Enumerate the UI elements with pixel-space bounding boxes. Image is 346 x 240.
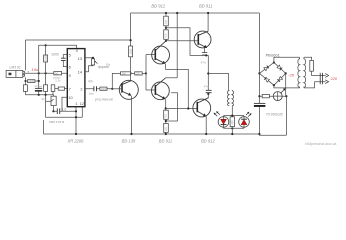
wire fuse line [259, 95, 286, 97]
svg-text:~20: ~20 [288, 73, 295, 77]
wire Q4 collector to rail [207, 13, 209, 31]
svg-text:220: 220 [136, 72, 141, 75]
node LED block top [231, 115, 233, 117]
node LED block bottom [231, 127, 233, 129]
node Q2 emitter to Q5 base [187, 107, 189, 109]
wire vertical x45.6 [46, 45, 83, 117]
svg-text:XR 2206: XR 2206 [67, 139, 85, 144]
transistor Q5 BD912 bottom right [193, 98, 211, 117]
wire pin13 to trimmer [85, 57, 93, 59]
wire pin10 branch [62, 97, 67, 111]
diode bridge top-right [277, 65, 282, 70]
node rail chain bottom [165, 133, 167, 135]
wire Q5 emitter to rail [205, 117, 207, 135]
capacitor electrolytic 470mk plates [35, 88, 42, 90]
wire pin2 output [85, 88, 112, 90]
svg-text:1мк: 1мк [89, 92, 95, 96]
top supply rail [131, 12, 260, 14]
svg-text:47н: 47н [204, 85, 209, 89]
svg-text:47к: 47к [88, 79, 94, 83]
node bridge top vertex [273, 61, 275, 63]
svg-text:0,5: 0,5 [165, 127, 168, 131]
svg-text:1000: 1000 [101, 88, 107, 91]
svg-text:BD 911: BD 911 [199, 3, 212, 8]
resistor horizontal 2200 [28, 80, 35, 83]
wire LED block to rail [231, 128, 233, 134]
capacitor 47n plates lower [206, 90, 212, 92]
resistor output series [100, 87, 107, 90]
node pot bottom [52, 110, 54, 112]
svg-text:2,2к: 2,2к [55, 79, 61, 83]
node pin4-loop junction [45, 44, 47, 46]
node rail x177.2 [176, 12, 178, 14]
node bridge left vertex [258, 72, 260, 74]
node input-R2 junction [45, 72, 47, 74]
node PSU rail bottom [258, 133, 260, 135]
node rail Q1 emitter [130, 133, 132, 135]
svg-text:2: 2 [27, 71, 29, 75]
svg-text:912: 912 [42, 97, 47, 101]
value marks inside resistors [28, 20, 234, 131]
node cap bottom [38, 94, 40, 96]
transistor Q4 BD911 top right [194, 31, 211, 48]
svg-text:14: 14 [78, 70, 82, 74]
svg-text:10к: 10к [31, 67, 39, 72]
arrow plug lower [325, 80, 328, 84]
resistor chain bottom R upper [164, 110, 169, 119]
capacitor 1.0 bars [57, 108, 59, 114]
svg-text:47н: 47н [201, 60, 206, 64]
LED D2 right red [239, 116, 250, 129]
capacitor C timing pins 5-6 [61, 55, 67, 67]
trimmer RP forma [91, 59, 97, 65]
svg-text:2к2: 2к2 [55, 72, 59, 75]
wire pin7 stubs [55, 88, 68, 90]
node pin2 chain to base [111, 88, 113, 90]
wire Q3 base [146, 89, 155, 91]
op-amp U1 XR2206 body [67, 49, 85, 107]
node chain mid [165, 27, 167, 29]
wire primary top to fuse [304, 57, 312, 60]
svg-text:0,5: 0,5 [165, 20, 168, 24]
wire rail left riser [43, 120, 45, 134]
wire bridge top to transformer [274, 57, 300, 62]
node chain bottom mid [165, 120, 167, 122]
wire bridge bottom to transformer [274, 85, 300, 88]
svg-text:0,5: 0,5 [165, 114, 168, 118]
wire frame top edge [25, 39, 130, 41]
svg-text:1: 1 [75, 102, 77, 106]
capacitor output coupling bars [94, 86, 97, 91]
svg-text:LM3 91: LM3 91 [9, 66, 20, 70]
capacitor filter 70000 plates [254, 102, 266, 104]
resistor vertical x45.6 lower [44, 85, 48, 92]
svg-text:1,0: 1,0 [62, 108, 67, 112]
svg-text:13: 13 [78, 57, 82, 61]
LED D1 left red [218, 116, 229, 129]
node pin1 on y117 [75, 116, 77, 118]
wire pin4 loop [39, 45, 77, 95]
node base chain right [145, 72, 147, 74]
node 2200 left [24, 80, 26, 82]
transistor Q3 BD911 lower middle [152, 78, 170, 100]
bridge rectifier PBU601 edges [259, 63, 285, 86]
svg-text:частота: частота [49, 120, 64, 124]
resistor vertical left branch [23, 85, 27, 92]
wire 2200 line y81 [25, 80, 38, 82]
svg-text:BD 139: BD 139 [122, 139, 136, 144]
svg-text:1000: 1000 [45, 55, 48, 61]
bottom ground rail [44, 133, 260, 135]
node input-R junction [38, 72, 40, 74]
capacitor Q4 emitter plates [202, 53, 207, 55]
wire bottom of RC group y94.8 [25, 91, 53, 96]
wire PSU left column x259.4 [258, 13, 260, 134]
resistor riser vertical [129, 46, 133, 57]
wire pin14 to trimmer bottom [85, 65, 93, 72]
resistor chain top R lower [164, 30, 169, 40]
wire frame left edge upper [24, 40, 26, 70]
svg-text:BD 912: BD 912 [151, 3, 165, 8]
resistor R input series [54, 72, 62, 75]
svg-text:100: 100 [231, 120, 234, 125]
node bridge right vertex [285, 72, 287, 74]
transistor Q1 BD139 [112, 80, 138, 99]
node x45.6 y94.8 [45, 94, 47, 96]
node rail riser y40 [130, 39, 132, 41]
wire Q4 base [166, 40, 198, 42]
svg-text:9: 9 [69, 74, 71, 78]
diode bridge bottom-right [277, 77, 282, 82]
wire chain mid branch to Q4 emitter [166, 28, 208, 56]
wire chain bottom stubs [165, 119, 167, 134]
wire x177.5 lower link [166, 93, 178, 121]
wire LED block top [224, 115, 245, 117]
wire LED block bottom [224, 127, 245, 129]
wire frame left edge lower [24, 77, 26, 84]
diode bridge top-left [264, 65, 269, 70]
wire x208.3 drop [207, 55, 209, 98]
LED arrows right indicator [246, 112, 251, 116]
svg-text:5: 5 [69, 53, 71, 57]
LED arrows indicator [214, 112, 219, 116]
transformer T1 primary winding [304, 57, 306, 88]
wire choke bottom lead [231, 105, 233, 115]
transformer T1 secondary winding [298, 57, 300, 88]
node Q5 collector junction [207, 93, 209, 95]
svg-text:1000: 1000 [130, 48, 133, 54]
svg-text:7: 7 [69, 87, 71, 91]
resistor chain bottom R lower [164, 123, 169, 132]
wire Q3 collector to riser [166, 77, 178, 79]
svg-text:470мк: 470мк [34, 85, 43, 89]
svg-text:10: 10 [68, 96, 72, 100]
svg-text:2200: 2200 [28, 80, 34, 83]
svg-text:2: 2 [80, 87, 82, 91]
svg-text:усиление: усиление [94, 97, 113, 101]
wire pin1 drop [75, 107, 77, 134]
wire left supply riser x130.6 [130, 13, 132, 81]
wire fuse to plug upper [312, 71, 326, 75]
svg-text:BD 911: BD 911 [159, 139, 172, 144]
svg-text:220: 220 [330, 77, 338, 81]
svg-text:el34personal.ucoz.ua: el34personal.ucoz.ua [305, 142, 337, 146]
wire feedback riser x112.3 [112, 73, 120, 88]
svg-text:6: 6 [69, 66, 71, 70]
plug bars [320, 73, 322, 84]
wire Q4 emitter drop [203, 48, 205, 53]
node riser y73.4 [130, 72, 132, 74]
resistor vertical x53 [51, 85, 55, 92]
resistor pin7 horizontal [58, 87, 64, 90]
lamp HL indicator [273, 88, 285, 100]
svg-text:0,5: 0,5 [165, 33, 168, 37]
svg-text:1000: 1000 [51, 52, 59, 56]
wire pin12 drop [81, 107, 83, 117]
wire Q2 base [146, 54, 155, 56]
wire bases riser x146 [145, 55, 147, 91]
diode bridge bottom-left [264, 77, 269, 82]
wire primary bottom to plug lower [304, 82, 326, 88]
wire y111.3 line [53, 110, 76, 112]
node Q4 collector rail [207, 12, 209, 14]
fuse F2 DC line [262, 94, 269, 97]
wire output to choke [208, 74, 228, 91]
node 2200 right [38, 80, 40, 82]
resistor chain top R upper [164, 16, 169, 26]
svg-text:70.000х35: 70.000х35 [266, 113, 283, 117]
svg-text:BD 912: BD 912 [201, 139, 215, 144]
node rail LED block [231, 133, 233, 135]
node Q4 emitter junction [205, 54, 207, 56]
node rail chain top [165, 12, 167, 14]
node PSU fuse line left [258, 95, 260, 97]
wire PSU bottom [259, 134, 286, 135]
wire pot bottom [52, 106, 54, 112]
wire Q2 emitter path [166, 64, 189, 109]
node x208.3 y73.5 [207, 72, 209, 74]
resistor R1 base chain [121, 72, 131, 75]
node rail Q5 emitter [205, 133, 207, 135]
wire chain top stubs [165, 13, 167, 41]
wire input line y73.3 [25, 72, 68, 74]
svg-text:10к: 10к [106, 63, 111, 67]
svg-text:12: 12 [80, 102, 84, 106]
node chain bottom [165, 40, 167, 42]
inductor L choke output [227, 90, 229, 105]
node rail pin1 [75, 133, 77, 135]
node trimmer top [92, 57, 94, 59]
wire Q1 emitter to rail [131, 96, 133, 134]
wire Q5 base line [166, 107, 198, 109]
resistor R2 base chain [135, 72, 143, 75]
potentiometer vertical [46, 96, 57, 105]
connector X1 input [6, 70, 24, 77]
fuse F1 mains [310, 60, 314, 71]
node pin1 on y111 [75, 110, 77, 112]
arrow plug upper [325, 74, 328, 78]
node Q3 emitter [165, 107, 167, 109]
wire left branch to bottom wire [24, 91, 26, 94]
svg-text:4: 4 [76, 49, 78, 53]
node bridge bottom vertex [273, 84, 275, 86]
resistor 1000 vertical [44, 55, 48, 62]
resistor LED middle [230, 117, 235, 127]
transistor Q2 BD911 top middle [152, 41, 170, 64]
wire rail riser x177.2 [176, 13, 178, 78]
wire PSU right column x286.4 [285, 73, 288, 135]
wire base chain y73.4 [131, 72, 147, 74]
node lamp right [285, 95, 287, 97]
wire Q3 emitter [165, 99, 167, 110]
